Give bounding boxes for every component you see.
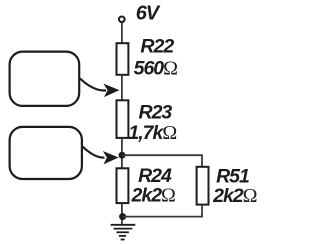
ground symbol: [111, 225, 136, 240]
bottom junction node dot: [119, 213, 126, 220]
svg-text:6V: 6V: [136, 2, 161, 24]
svg-text:2k2Ω: 2k2Ω: [131, 184, 176, 206]
callout box 2: [10, 127, 82, 179]
resistor R23: [117, 100, 129, 138]
svg-text:R23: R23: [139, 102, 173, 124]
svg-text:R22: R22: [140, 35, 174, 57]
wire terminal to R22: [121, 23, 123, 43]
resistor R24: [117, 168, 129, 203]
wire R51 to bottom: [201, 205, 203, 217]
node 6V terminal circle: [119, 17, 125, 23]
wire junction to R51 branch: [122, 155, 202, 166]
svg-text:1,7kΩ: 1,7kΩ: [128, 122, 176, 144]
svg-text:560Ω: 560Ω: [134, 57, 178, 79]
arrow 2 from box 2 to junction node: [83, 147, 105, 158]
arrow 1 from box 1 to wire between R22 and R23: [80, 79, 106, 91]
callout box 1: [10, 52, 80, 106]
junction node dot: [119, 152, 126, 159]
wire bottom node to R51: [123, 216, 203, 218]
resistor R22: [117, 43, 129, 75]
wire R22 to R23: [121, 75, 123, 100]
resistor R51: [197, 167, 209, 205]
wire R23 to junction and R24: [121, 139, 123, 168]
wire R24 to bottom node: [121, 203, 123, 224]
svg-text:2k2Ω: 2k2Ω: [212, 185, 257, 207]
